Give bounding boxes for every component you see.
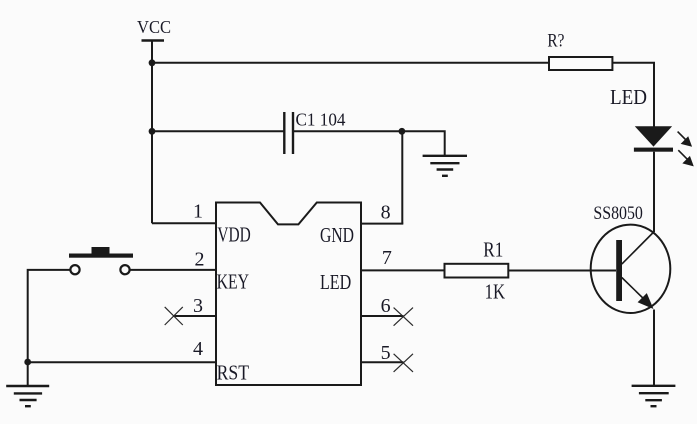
junction at capacitor wire / pin 8 drop [399, 128, 406, 135]
svg-text:7: 7 [382, 247, 392, 269]
wire pin 8 stub [361, 223, 403, 225]
resistor R? body [549, 57, 612, 70]
svg-text:VDD: VDD [217, 223, 250, 247]
svg-text:2: 2 [195, 248, 205, 270]
svg-text:1K: 1K [485, 279, 506, 303]
svg-text:C1 104: C1 104 [296, 110, 346, 130]
svg-text:LED: LED [610, 85, 647, 109]
resistor R1 body [445, 264, 509, 278]
pushbutton S1 plunger [92, 247, 110, 254]
ground symbol bottom left [6, 386, 49, 406]
no-connect X on pin 6 [394, 308, 413, 326]
wire LED cathode down to collector node [653, 152, 655, 232]
LED emission arrow 1 [678, 132, 691, 146]
LED emission arrow 2 [678, 150, 692, 165]
transistor Q1 emitter line [622, 278, 648, 304]
pushbutton S1 actuator bar [69, 254, 133, 258]
pushbutton S1 right contact [120, 265, 129, 274]
svg-text:R?: R? [547, 31, 564, 52]
junction at VCC rail / top wire [149, 59, 156, 66]
wire top rail to R? [152, 62, 549, 64]
transistor Q1 emitter arrowhead [638, 293, 654, 309]
wire VCC vertical rail [151, 41, 153, 224]
svg-text:KEY: KEY [217, 270, 249, 294]
wire pin 1 from VCC rail [152, 222, 216, 224]
svg-text:SS8050: SS8050 [593, 203, 643, 224]
wire pin 5 stub [361, 361, 403, 363]
junction at VCC rail / capacitor wire [149, 128, 156, 135]
no-connect X on pin 3 [165, 307, 183, 325]
svg-text:6: 6 [381, 295, 391, 317]
transistor Q1 collector line [622, 232, 654, 265]
no-connect X on pin 5 [394, 354, 413, 372]
svg-text:GND: GND [320, 223, 354, 247]
wire left contact to left rail corner [28, 270, 70, 386]
svg-text:R1: R1 [483, 238, 503, 262]
junction at left rail / pin 4 wire [24, 359, 31, 366]
svg-text:5: 5 [381, 342, 391, 364]
wire pin 6 stub [361, 315, 403, 317]
ground symbol near C1 [423, 156, 467, 176]
LED D? anode triangle [635, 126, 672, 146]
wire pin 3 stub [174, 315, 216, 317]
LED cathode bar [634, 148, 673, 152]
transistor Q1 base bar [616, 240, 622, 301]
wire right contact to pin 2 [131, 269, 217, 271]
VCC power symbol bar [142, 39, 165, 42]
wire emitter to ground [653, 310, 655, 386]
svg-text:1: 1 [193, 200, 203, 222]
ground symbol bottom right [632, 386, 676, 406]
svg-text:3: 3 [193, 295, 203, 317]
wire R? to LED corner [612, 63, 654, 127]
transistor Q1 body circle [591, 225, 671, 313]
wire pin 7 to R1 [361, 269, 445, 271]
svg-text:LED: LED [320, 270, 351, 294]
pushbutton S1 left contact [70, 265, 79, 274]
capacitor C1 left plate [283, 112, 285, 154]
wire capacitor to ground corner [294, 131, 445, 156]
capacitor C1 right plate [292, 112, 294, 154]
wire pin 4 from left rail [28, 361, 216, 363]
wire VCC rail to capacitor C1 [152, 130, 284, 132]
op IC U1 outline with notch [216, 203, 361, 386]
wire R1 to transistor base [508, 270, 616, 272]
svg-text:8: 8 [381, 202, 391, 224]
svg-text:4: 4 [193, 338, 203, 360]
svg-text:RST: RST [217, 361, 250, 385]
wire pin 8 vertical drop [401, 131, 403, 223]
svg-text:VCC: VCC [137, 17, 171, 37]
